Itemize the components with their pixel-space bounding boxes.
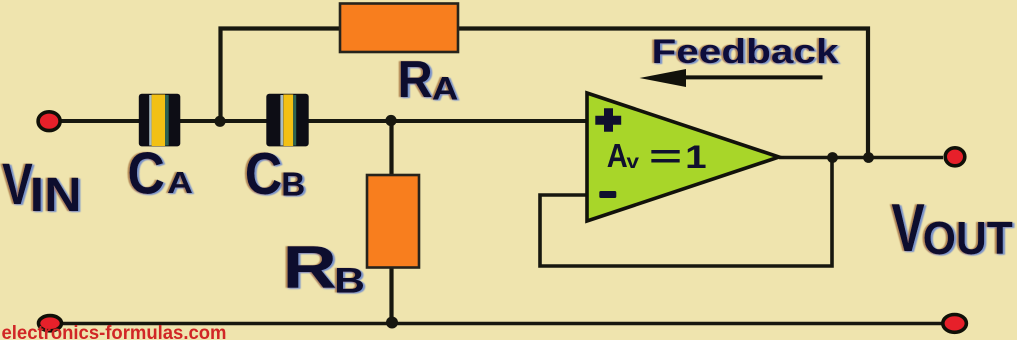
svg-text:R: R [398,50,433,108]
label R_A [398,50,459,108]
wire: op-amp output to VOUT terminal [779,156,943,160]
wire: RB branch down to ground rail [389,120,393,323]
terminal: ground right [943,315,967,333]
svg-text:v: v [627,152,640,173]
svg-text:R: R [283,234,338,301]
wire: feedback top rail (junction A up, across through RA, down to output) [221,29,869,159]
svg-text:C: C [127,141,164,207]
node: RB to ground rail junction [386,317,398,329]
svg-text:A: A [607,137,628,174]
svg-text:1: 1 [685,139,707,175]
wire: input to op-amp noninverting input (main horizontal) [61,119,587,123]
node: junction B (CB-RB-opamp) [385,115,396,126]
svg-text:electronics-formulas.com: electronics-formulas.com [2,323,227,340]
label C_B [245,141,305,207]
label C_A [127,141,193,207]
node: output junction (feedback loop) [827,152,838,163]
wire: ground bottom rail [50,322,954,326]
svg-text:Feedback: Feedback [652,33,839,71]
terminal: VIN input [38,112,60,131]
op-amp minus input sign [599,191,616,198]
op-amp U1 [587,93,779,221]
svg-text:=: = [649,138,682,174]
label V_OUT [891,191,1012,266]
svg-text:A: A [432,70,459,106]
node: output junction (RA feedback) [863,152,874,163]
capacitor C_A [139,94,181,147]
op-amp gain label Av = 1 [607,137,707,175]
terminal: ground left [39,316,62,331]
op-amp plus input sign [595,108,621,132]
label V_IN [2,152,82,222]
svg-text:C: C [245,141,282,207]
feedback arrow [640,69,823,87]
label R_B [283,234,366,301]
terminal: VOUT output [945,148,965,166]
svg-text:B: B [281,165,305,202]
resistor R_B [367,175,419,268]
capacitor C_B [266,94,308,147]
svg-text:OUT: OUT [923,212,1013,264]
node: junction A (CA-CB-RA) [214,116,225,127]
svg-text:IN: IN [30,169,82,222]
svg-text:A: A [167,165,193,200]
wire: unity feedback loop from inverting input to output node [540,157,832,266]
svg-text:V: V [2,152,33,217]
resistor R_A [340,4,458,53]
svg-text:B: B [334,262,365,301]
svg-text:V: V [891,191,924,266]
